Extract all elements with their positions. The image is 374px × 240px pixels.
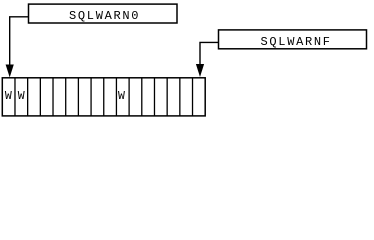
warning flag array outline (2, 78, 205, 116)
box SQLWARNF (219, 30, 367, 49)
cell dividers (15, 78, 193, 116)
svg-text:SQLWARNF: SQLWARNF (261, 35, 332, 49)
box SQLWARN0 (29, 4, 178, 23)
arrowhead into last cell (196, 64, 204, 77)
wire from SQLWARN0 box to first cell (10, 17, 29, 65)
svg-text:W: W (118, 90, 125, 103)
wire from SQLWARNF box to last cell (200, 42, 219, 64)
svg-text:W: W (18, 90, 25, 103)
svg-text:SQLWARN0: SQLWARN0 (69, 9, 140, 23)
arrowhead into first cell (6, 65, 14, 78)
svg-text:W: W (5, 90, 12, 103)
